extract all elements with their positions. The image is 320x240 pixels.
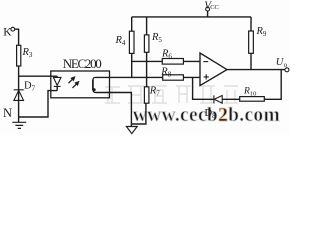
svg-text:R8: R8: [160, 66, 171, 78]
svg-text:D7: D7: [24, 80, 36, 92]
svg-text:R5: R5: [151, 32, 162, 44]
svg-text:R7: R7: [149, 86, 160, 98]
svg-text:R10: R10: [243, 87, 256, 98]
svg-text:R9: R9: [256, 26, 267, 38]
svg-text:NEC200: NEC200: [63, 56, 102, 71]
svg-text:o: o: [284, 61, 288, 69]
svg-text:CC: CC: [210, 4, 219, 11]
svg-text:R4: R4: [115, 35, 126, 47]
svg-text:N: N: [3, 106, 12, 120]
svg-text:R6: R6: [161, 48, 172, 60]
svg-text:K: K: [3, 27, 12, 39]
svg-text:R3: R3: [22, 47, 33, 59]
